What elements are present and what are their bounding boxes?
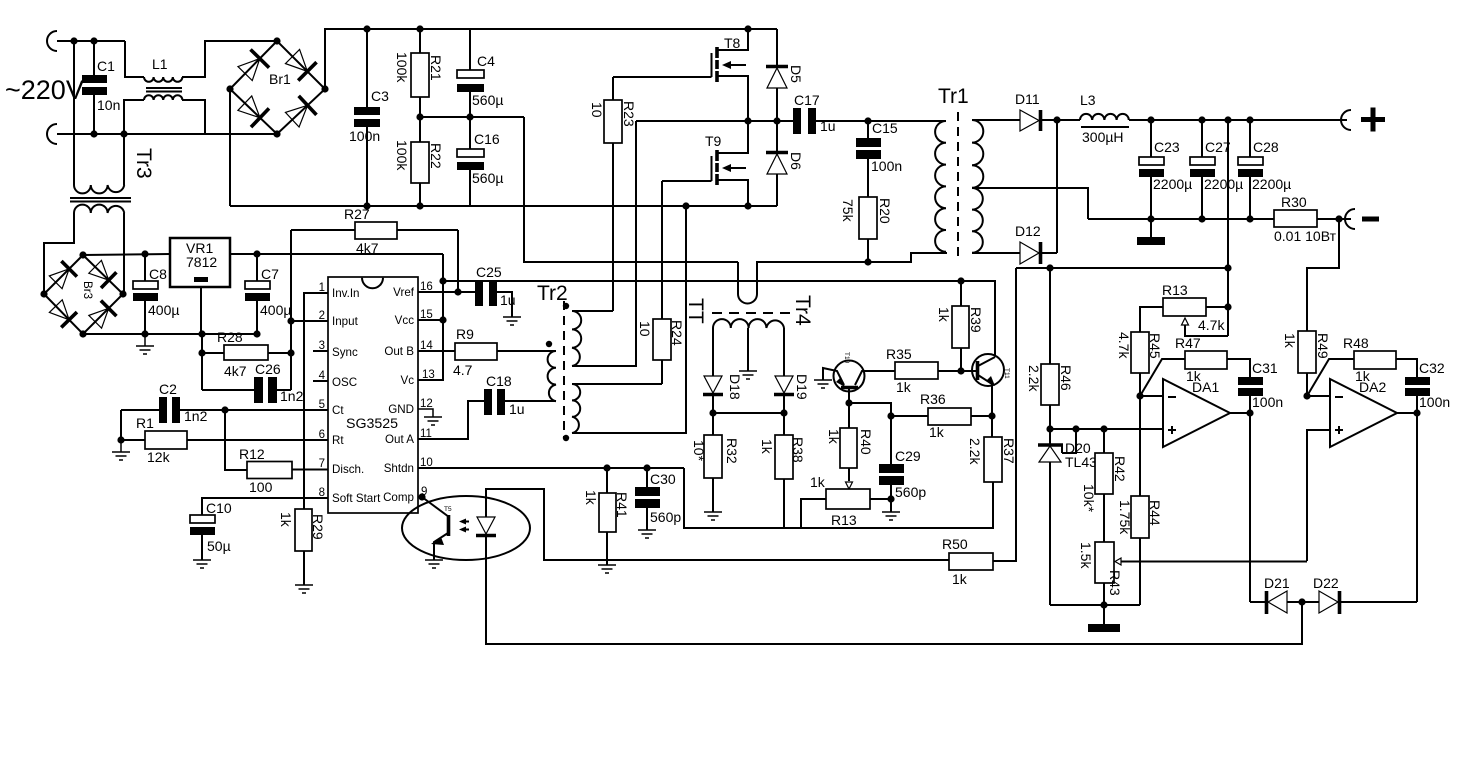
node dot xyxy=(363,202,370,209)
node dot xyxy=(439,277,446,284)
svg-text:1k: 1k xyxy=(952,571,968,587)
node dot xyxy=(773,117,780,124)
svg-text:300µH: 300µH xyxy=(1082,129,1124,145)
svg-text:R13: R13 xyxy=(831,512,857,528)
node dot xyxy=(744,202,751,209)
wire Br1 minus down xyxy=(229,89,231,206)
resistor R41 xyxy=(583,468,630,565)
svg-text:T10: T10 xyxy=(843,352,850,364)
svg-text:100k: 100k xyxy=(394,52,410,83)
svg-text:12: 12 xyxy=(420,398,433,410)
svg-text:2.2k: 2.2k xyxy=(967,438,983,465)
svg-text:L3: L3 xyxy=(1080,92,1096,108)
svg-text:1k: 1k xyxy=(1355,368,1371,384)
wire pin15 stub xyxy=(418,319,443,321)
svg-text:1.75k: 1.75k xyxy=(1117,500,1133,535)
svg-text:R20: R20 xyxy=(877,198,893,224)
resistor R47 xyxy=(1140,335,1250,396)
svg-text:R21: R21 xyxy=(428,55,444,81)
node dot xyxy=(1072,425,1079,432)
diode D19 xyxy=(774,374,810,413)
svg-text:L1: L1 xyxy=(152,56,168,72)
wire 12V rail xyxy=(443,281,995,356)
node dot xyxy=(1147,116,1154,123)
inductor L3 xyxy=(1057,92,1129,145)
capacitor C18 xyxy=(418,373,556,439)
svg-text:Vc: Vc xyxy=(400,374,414,387)
resistor R48 xyxy=(1307,335,1417,396)
svg-text:T8: T8 xyxy=(724,35,741,51)
diode D18 xyxy=(703,374,743,413)
svg-text:4.7: 4.7 xyxy=(453,362,473,378)
svg-text:R27: R27 xyxy=(344,206,370,222)
svg-text:4k7: 4k7 xyxy=(224,363,247,379)
svg-text:1k: 1k xyxy=(810,474,826,490)
svg-text:0.01 10Вт: 0.01 10Вт xyxy=(1274,228,1337,244)
svg-text:C7: C7 xyxy=(261,266,279,282)
svg-text:D18: D18 xyxy=(727,374,743,400)
wire +out rail xyxy=(1129,119,1347,121)
transistor T10 xyxy=(823,352,895,403)
resistor R40 xyxy=(826,403,874,489)
svg-text:1k: 1k xyxy=(1186,368,1202,384)
node dot xyxy=(682,202,689,209)
wire Vcc Vc tie xyxy=(418,254,443,380)
node dot xyxy=(141,250,148,257)
node dot pin2 xyxy=(287,317,294,324)
svg-text:10: 10 xyxy=(637,321,653,337)
wire Tr1 secondary top xyxy=(972,119,1020,121)
svg-text:1u: 1u xyxy=(500,292,516,308)
node dot xyxy=(845,399,852,406)
node dot xyxy=(1053,116,1060,123)
node dot xyxy=(864,117,871,124)
node dot xyxy=(1147,215,1154,222)
resistor R46 xyxy=(1026,268,1074,429)
resistor R22 xyxy=(394,117,444,206)
svg-text:R37: R37 xyxy=(1001,438,1017,464)
svg-text:R12: R12 xyxy=(239,446,265,462)
svg-text:560p: 560p xyxy=(895,484,926,500)
svg-text:10n: 10n xyxy=(97,97,120,113)
svg-text:Soft Start: Soft Start xyxy=(332,492,381,505)
svg-text:Comp: Comp xyxy=(383,491,414,504)
svg-text:C17: C17 xyxy=(794,92,820,108)
svg-text:10*: 10* xyxy=(691,440,707,462)
wire Tr1 center tap xyxy=(972,188,1088,219)
svg-text:R28: R28 xyxy=(217,329,243,345)
ground xyxy=(425,560,443,568)
svg-text:1k: 1k xyxy=(1282,333,1298,349)
capacitor C23 xyxy=(1139,120,1192,219)
capacitor C32 xyxy=(1405,360,1450,413)
svg-text:C2: C2 xyxy=(159,381,177,397)
svg-text:C15: C15 xyxy=(872,120,898,136)
wire DA2 output xyxy=(1397,413,1417,602)
node dot xyxy=(439,316,446,323)
svg-text:R46: R46 xyxy=(1058,365,1074,391)
resistor R20 xyxy=(840,197,893,262)
capacitor C4 xyxy=(457,29,503,117)
wire Tr1 secondary bottom xyxy=(972,252,1020,254)
resistor R39 xyxy=(936,281,984,371)
wire pin4 stub xyxy=(313,380,328,382)
wire Br1 plus to top rail xyxy=(325,29,777,89)
AC terminal top xyxy=(47,31,57,51)
resistor R36 xyxy=(849,391,992,440)
wire pin3 stub xyxy=(313,350,328,352)
resistor R37 xyxy=(967,416,1017,482)
svg-text:Br3: Br3 xyxy=(81,281,94,299)
node dot xyxy=(1413,409,1420,416)
wire +out down xyxy=(1227,120,1229,336)
svg-text:50µ: 50µ xyxy=(207,538,231,554)
wire pin16 Vref xyxy=(418,291,475,293)
capacitor C30 xyxy=(635,468,681,530)
svg-text:TL43: TL43 xyxy=(1065,454,1097,470)
svg-text:Sync: Sync xyxy=(332,346,358,359)
svg-text:C31: C31 xyxy=(1252,360,1278,376)
ground xyxy=(112,440,130,460)
wire DA1 output xyxy=(1230,413,1250,602)
wire aux gnd rail xyxy=(83,333,257,335)
ground xyxy=(503,317,521,325)
svg-text:R36: R36 xyxy=(920,391,946,407)
node dot xyxy=(1246,116,1253,123)
svg-text:560p: 560p xyxy=(650,509,681,525)
capacitor C31 xyxy=(1238,360,1283,413)
transformer TT Tr4 xyxy=(684,295,814,376)
ground xyxy=(882,512,900,520)
capacitor C2 xyxy=(121,381,328,424)
capacitor C27 xyxy=(1190,120,1243,219)
svg-text:1k: 1k xyxy=(826,429,842,445)
ground xyxy=(638,530,656,538)
svg-text:T9: T9 xyxy=(705,133,722,149)
wire DA2 plus input xyxy=(1307,430,1330,561)
svg-text:1k: 1k xyxy=(936,307,952,323)
inductor L1 xyxy=(124,41,277,134)
ground xyxy=(739,371,757,379)
svg-text:T11: T11 xyxy=(1003,368,1010,379)
svg-text:R38: R38 xyxy=(790,437,806,463)
svg-text:R39: R39 xyxy=(968,307,984,333)
svg-text:C28: C28 xyxy=(1253,139,1279,155)
node dot xyxy=(253,250,260,257)
ground xyxy=(295,585,313,593)
node dot xyxy=(1298,598,1305,605)
svg-text:R29: R29 xyxy=(310,514,326,540)
node dot xyxy=(70,37,77,44)
transformer Tr3 xyxy=(44,134,155,294)
svg-text:~220V: ~220V xyxy=(5,75,84,105)
svg-text:Ct: Ct xyxy=(332,404,344,417)
capacitor C1 xyxy=(82,41,120,134)
svg-text:C3: C3 xyxy=(371,88,389,104)
resistor R49 xyxy=(1282,331,1331,396)
ground xyxy=(814,380,832,388)
capacitor C28 xyxy=(1238,120,1291,219)
node dot xyxy=(141,330,148,337)
wire opto LED cathode xyxy=(486,535,1302,644)
svg-text:SG3525: SG3525 xyxy=(346,416,398,432)
svg-text:Tr3: Tr3 xyxy=(132,148,155,179)
node dot xyxy=(253,330,260,337)
svg-text:1n2: 1n2 xyxy=(280,388,304,404)
resistor R29 xyxy=(278,509,326,585)
capacitor C15 xyxy=(856,120,902,197)
wire pin10 Shtdn xyxy=(418,467,684,469)
transistor T8 xyxy=(712,29,749,121)
svg-text:R40: R40 xyxy=(858,429,874,455)
resistor R45 xyxy=(1116,332,1163,396)
svg-text:R41: R41 xyxy=(614,492,630,518)
svg-text:1n2: 1n2 xyxy=(184,408,208,424)
node dot xyxy=(643,464,650,471)
node dot xyxy=(1335,215,1342,222)
wire -out rail xyxy=(1088,218,1274,220)
svg-text:C30: C30 xyxy=(650,471,676,487)
svg-text:100k: 100k xyxy=(394,140,410,171)
transistor T11 xyxy=(972,354,1010,416)
svg-text:100: 100 xyxy=(249,479,273,495)
resistor R21 xyxy=(394,29,444,117)
svg-text:Vcc: Vcc xyxy=(395,314,415,327)
transistor T9 xyxy=(705,121,748,206)
transformer Tr1 xyxy=(935,85,983,258)
resistor R38 xyxy=(759,413,806,528)
capacitor C7 xyxy=(245,254,291,334)
power ground xyxy=(1137,219,1165,245)
wire aux rail VR1 out xyxy=(230,253,443,255)
svg-text:R23: R23 xyxy=(621,101,637,127)
wire AC bottom xyxy=(57,133,208,135)
svg-text:C8: C8 xyxy=(149,266,167,282)
resistor R1 xyxy=(117,410,328,465)
svg-text:7812: 7812 xyxy=(186,254,217,270)
node dot xyxy=(1224,116,1231,123)
wire opto LED anode xyxy=(486,489,949,560)
svg-text:R50: R50 xyxy=(942,536,968,552)
svg-text:D12: D12 xyxy=(1015,223,1041,239)
svg-text:C18: C18 xyxy=(486,373,512,389)
svg-text:Br1: Br1 xyxy=(269,71,291,87)
resistor R12 xyxy=(225,410,328,495)
svg-text:R45: R45 xyxy=(1147,333,1163,359)
resistor R23 xyxy=(589,77,637,311)
svg-text:1k: 1k xyxy=(278,512,294,528)
svg-text:Vref: Vref xyxy=(393,286,415,299)
svg-text:400µ: 400µ xyxy=(260,302,291,318)
ground pin12 xyxy=(418,409,442,425)
op-amp DA2 xyxy=(1330,379,1397,447)
svg-text:10: 10 xyxy=(589,102,605,118)
svg-text:TT: TT xyxy=(684,298,707,324)
transformer Tr2 xyxy=(537,282,581,441)
ground xyxy=(598,565,616,573)
node dot xyxy=(90,130,97,137)
resistor R50 xyxy=(942,268,1016,587)
node dot xyxy=(1224,303,1231,310)
node dot xyxy=(1100,601,1107,608)
wire Tr2 sec lower bottom xyxy=(572,206,686,433)
capacitor C8 xyxy=(133,254,179,334)
bridge rectifier Br1 xyxy=(226,37,328,137)
wire D11 D12 cathodes xyxy=(1056,120,1058,253)
svg-text:R9: R9 xyxy=(456,326,474,342)
AC terminal bottom xyxy=(47,124,57,144)
ground xyxy=(136,334,154,354)
node dot xyxy=(744,25,751,32)
wire D18 D19 join xyxy=(713,412,784,414)
svg-text:Out B: Out B xyxy=(384,345,414,358)
svg-text:R13: R13 xyxy=(1162,282,1188,298)
wire to Tr1 primary top xyxy=(868,120,946,122)
svg-text:R35: R35 xyxy=(886,346,912,362)
node dot xyxy=(416,113,423,120)
svg-text:10k*: 10k* xyxy=(1081,484,1097,513)
wire Tr2 sec lower top xyxy=(572,383,662,385)
svg-text:100n: 100n xyxy=(871,158,902,174)
svg-text:D21: D21 xyxy=(1264,575,1290,591)
wire T9 gate row xyxy=(662,180,712,182)
regulator VR1 7812 xyxy=(170,238,230,334)
svg-text:Tr4: Tr4 xyxy=(791,295,814,326)
svg-text:D5: D5 xyxy=(788,65,804,83)
svg-text:560µ: 560µ xyxy=(472,170,503,186)
optocoupler T5 xyxy=(402,496,530,560)
potentiometer R13 top xyxy=(1140,282,1228,336)
svg-text:C23: C23 xyxy=(1154,139,1180,155)
svg-text:7: 7 xyxy=(319,458,325,470)
ground xyxy=(704,512,722,520)
svg-text:2.2k: 2.2k xyxy=(1026,365,1042,392)
wire cap divider mid to Tr1 primary return xyxy=(524,117,738,262)
diode D21 xyxy=(1250,575,1302,614)
node dot xyxy=(1303,392,1310,399)
ground xyxy=(193,560,211,568)
node dot xyxy=(744,117,751,124)
svg-text:1u: 1u xyxy=(509,401,525,417)
node dot xyxy=(1100,425,1107,432)
wire divider mid xyxy=(420,116,524,118)
diode D11 xyxy=(1015,91,1057,131)
svg-text:D6: D6 xyxy=(788,152,804,170)
capacitor C3 xyxy=(349,29,389,206)
op-amp DA1 xyxy=(1163,379,1230,447)
wire T8 gate row xyxy=(613,76,712,78)
svg-text:R22: R22 xyxy=(428,143,444,169)
node dot xyxy=(363,25,370,32)
svg-text:2200µ: 2200µ xyxy=(1252,176,1291,192)
node dot xyxy=(90,37,97,44)
diode D12 xyxy=(1015,223,1057,264)
capacitor C26 xyxy=(202,361,304,404)
svg-text:D22: D22 xyxy=(1313,575,1339,591)
svg-text:100n: 100n xyxy=(1419,394,1450,410)
capacitor C16 xyxy=(457,117,503,206)
node dot xyxy=(1046,264,1053,271)
node dot xyxy=(454,288,461,295)
capacitor C25 xyxy=(475,264,516,317)
wire 310V minus rail xyxy=(230,205,777,207)
node dot xyxy=(416,202,423,209)
svg-text:C1: C1 xyxy=(97,58,115,74)
wire AC top xyxy=(57,40,125,42)
svg-text:2200µ: 2200µ xyxy=(1153,176,1192,192)
diode D22 xyxy=(1302,575,1417,614)
diode D5 xyxy=(766,29,804,121)
svg-text:C29: C29 xyxy=(895,448,921,464)
svg-text:Rt: Rt xyxy=(332,434,344,447)
node dot xyxy=(957,277,964,284)
wire shutdown to R37 xyxy=(684,468,993,528)
wire pin2 stub xyxy=(291,320,328,322)
node dot xyxy=(1198,116,1205,123)
svg-text:R49: R49 xyxy=(1315,333,1331,359)
wire +aux rail xyxy=(83,254,170,255)
svg-text:Out A: Out A xyxy=(385,433,414,446)
wire Tr2 sec upper top xyxy=(572,310,613,312)
svg-text:Shtdn: Shtdn xyxy=(384,462,414,475)
svg-text:R32: R32 xyxy=(724,438,740,464)
wire minus terminal to R49 xyxy=(1307,219,1339,331)
wire TL431 node row xyxy=(1050,428,1163,430)
svg-text:1u: 1u xyxy=(820,118,836,134)
resistor R32 xyxy=(691,413,740,512)
svg-text:C26: C26 xyxy=(255,361,281,377)
svg-text:12k: 12k xyxy=(147,449,171,465)
svg-text:1k: 1k xyxy=(929,424,945,440)
resistor R42 xyxy=(1081,429,1128,542)
wire TT primary dip xyxy=(738,253,947,304)
resistor R35 xyxy=(886,346,977,395)
svg-text:Inv.In: Inv.In xyxy=(332,287,360,300)
svg-text:4.7k: 4.7k xyxy=(1116,332,1132,359)
node dot pin9 xyxy=(418,493,425,500)
svg-text:Input: Input xyxy=(332,315,359,328)
svg-text:1k: 1k xyxy=(583,490,599,506)
svg-text:R42: R42 xyxy=(1112,456,1128,482)
svg-text:R44: R44 xyxy=(1147,500,1163,526)
svg-text:C10: C10 xyxy=(206,500,232,516)
bridge rectifier Br3 xyxy=(40,251,126,337)
svg-text:C16: C16 xyxy=(474,131,500,147)
svg-text:R1: R1 xyxy=(136,415,154,431)
svg-text:OSC: OSC xyxy=(332,376,357,389)
wire TL431 anode row xyxy=(1050,604,1140,606)
diode D6 xyxy=(766,121,804,206)
wire to Tr3 primary left xyxy=(73,41,75,185)
svg-text:Disch.: Disch. xyxy=(332,463,364,476)
node dot xyxy=(1046,425,1053,432)
svg-text:C25: C25 xyxy=(476,264,502,280)
svg-text:C32: C32 xyxy=(1419,360,1445,376)
node dot xyxy=(1246,409,1253,416)
node dot xyxy=(709,409,716,416)
resistor R28 xyxy=(198,321,294,390)
svg-text:R47: R47 xyxy=(1175,335,1201,351)
wire pin1 to R29 xyxy=(304,293,328,509)
svg-text:75k: 75k xyxy=(840,199,856,223)
svg-text:R48: R48 xyxy=(1343,335,1369,351)
svg-text:D11: D11 xyxy=(1015,91,1040,107)
terminal plus xyxy=(1341,108,1385,132)
node dot xyxy=(198,330,205,337)
svg-text:R24: R24 xyxy=(669,320,685,346)
capacitor C10 xyxy=(190,498,328,560)
svg-text:R30: R30 xyxy=(1281,194,1307,210)
